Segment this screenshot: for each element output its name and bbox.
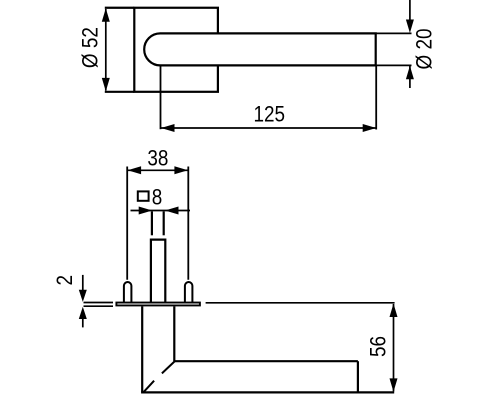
spindle size label 8 [152,185,163,210]
dimension 125: extension lines [161,66,377,130]
square-spindle symbol [138,191,149,200]
dimension 38: extension lines [127,167,188,280]
grip (side view) right end [357,361,359,392]
dimension 2: dimension line with arrowheads [79,275,87,328]
spindle rod (visible section) [151,240,165,303]
dimension 2: extension lines [84,303,114,307]
fixing post left [124,282,131,302]
dimension Ø20: label text [412,29,437,70]
dimension Ø20: dimension line with arrowheads [406,0,414,88]
svg-text:Ø 20: Ø 20 [412,29,437,70]
dimension Ø52: dimension line with arrowheads [102,8,110,91]
svg-text:8: 8 [152,185,163,210]
dimension 38: dimension line with arrowheads [128,166,188,174]
dimension Ø52: extension lines [105,8,135,92]
dimension Ø20: extension lines [376,33,412,65]
corner chamfer tick lower [144,381,155,393]
lever grip bar (front view, stadium shape) [144,33,376,65]
spindle shaft lines (8 mm square bar, upper part) [152,212,164,236]
dimension 56: label text [366,336,391,357]
dimension 8: dimension line with inward arrowheads [131,207,191,215]
corner chamfer tick upper [162,361,175,373]
dimension 125: dimension line with arrowheads [161,124,376,132]
svg-text:2: 2 [52,275,77,286]
dimension 38: label text [147,146,168,171]
fixing post right [185,282,193,302]
rose square outline (front view) [134,8,218,92]
dimension Ø52: label text [78,27,103,68]
dimension 125: label text [254,102,286,127]
dimension 56: dimension line with arrowheads [390,304,398,392]
svg-text:Ø 52: Ø 52 [78,27,103,68]
handle neck (side view) right edge [173,306,175,361]
svg-text:56: 56 [366,336,391,357]
dimension 56: top extension line [206,302,395,304]
dimension 2: label text [52,275,77,286]
svg-text:38: 38 [147,146,168,171]
handle neck (side view) left edge [141,306,143,392]
svg-text:125: 125 [254,102,286,127]
grip (side view) bottom edge, extended as 56 extension [141,391,394,393]
rose plate (edge view) [116,303,199,306]
grip (side view) top edge [174,360,358,362]
